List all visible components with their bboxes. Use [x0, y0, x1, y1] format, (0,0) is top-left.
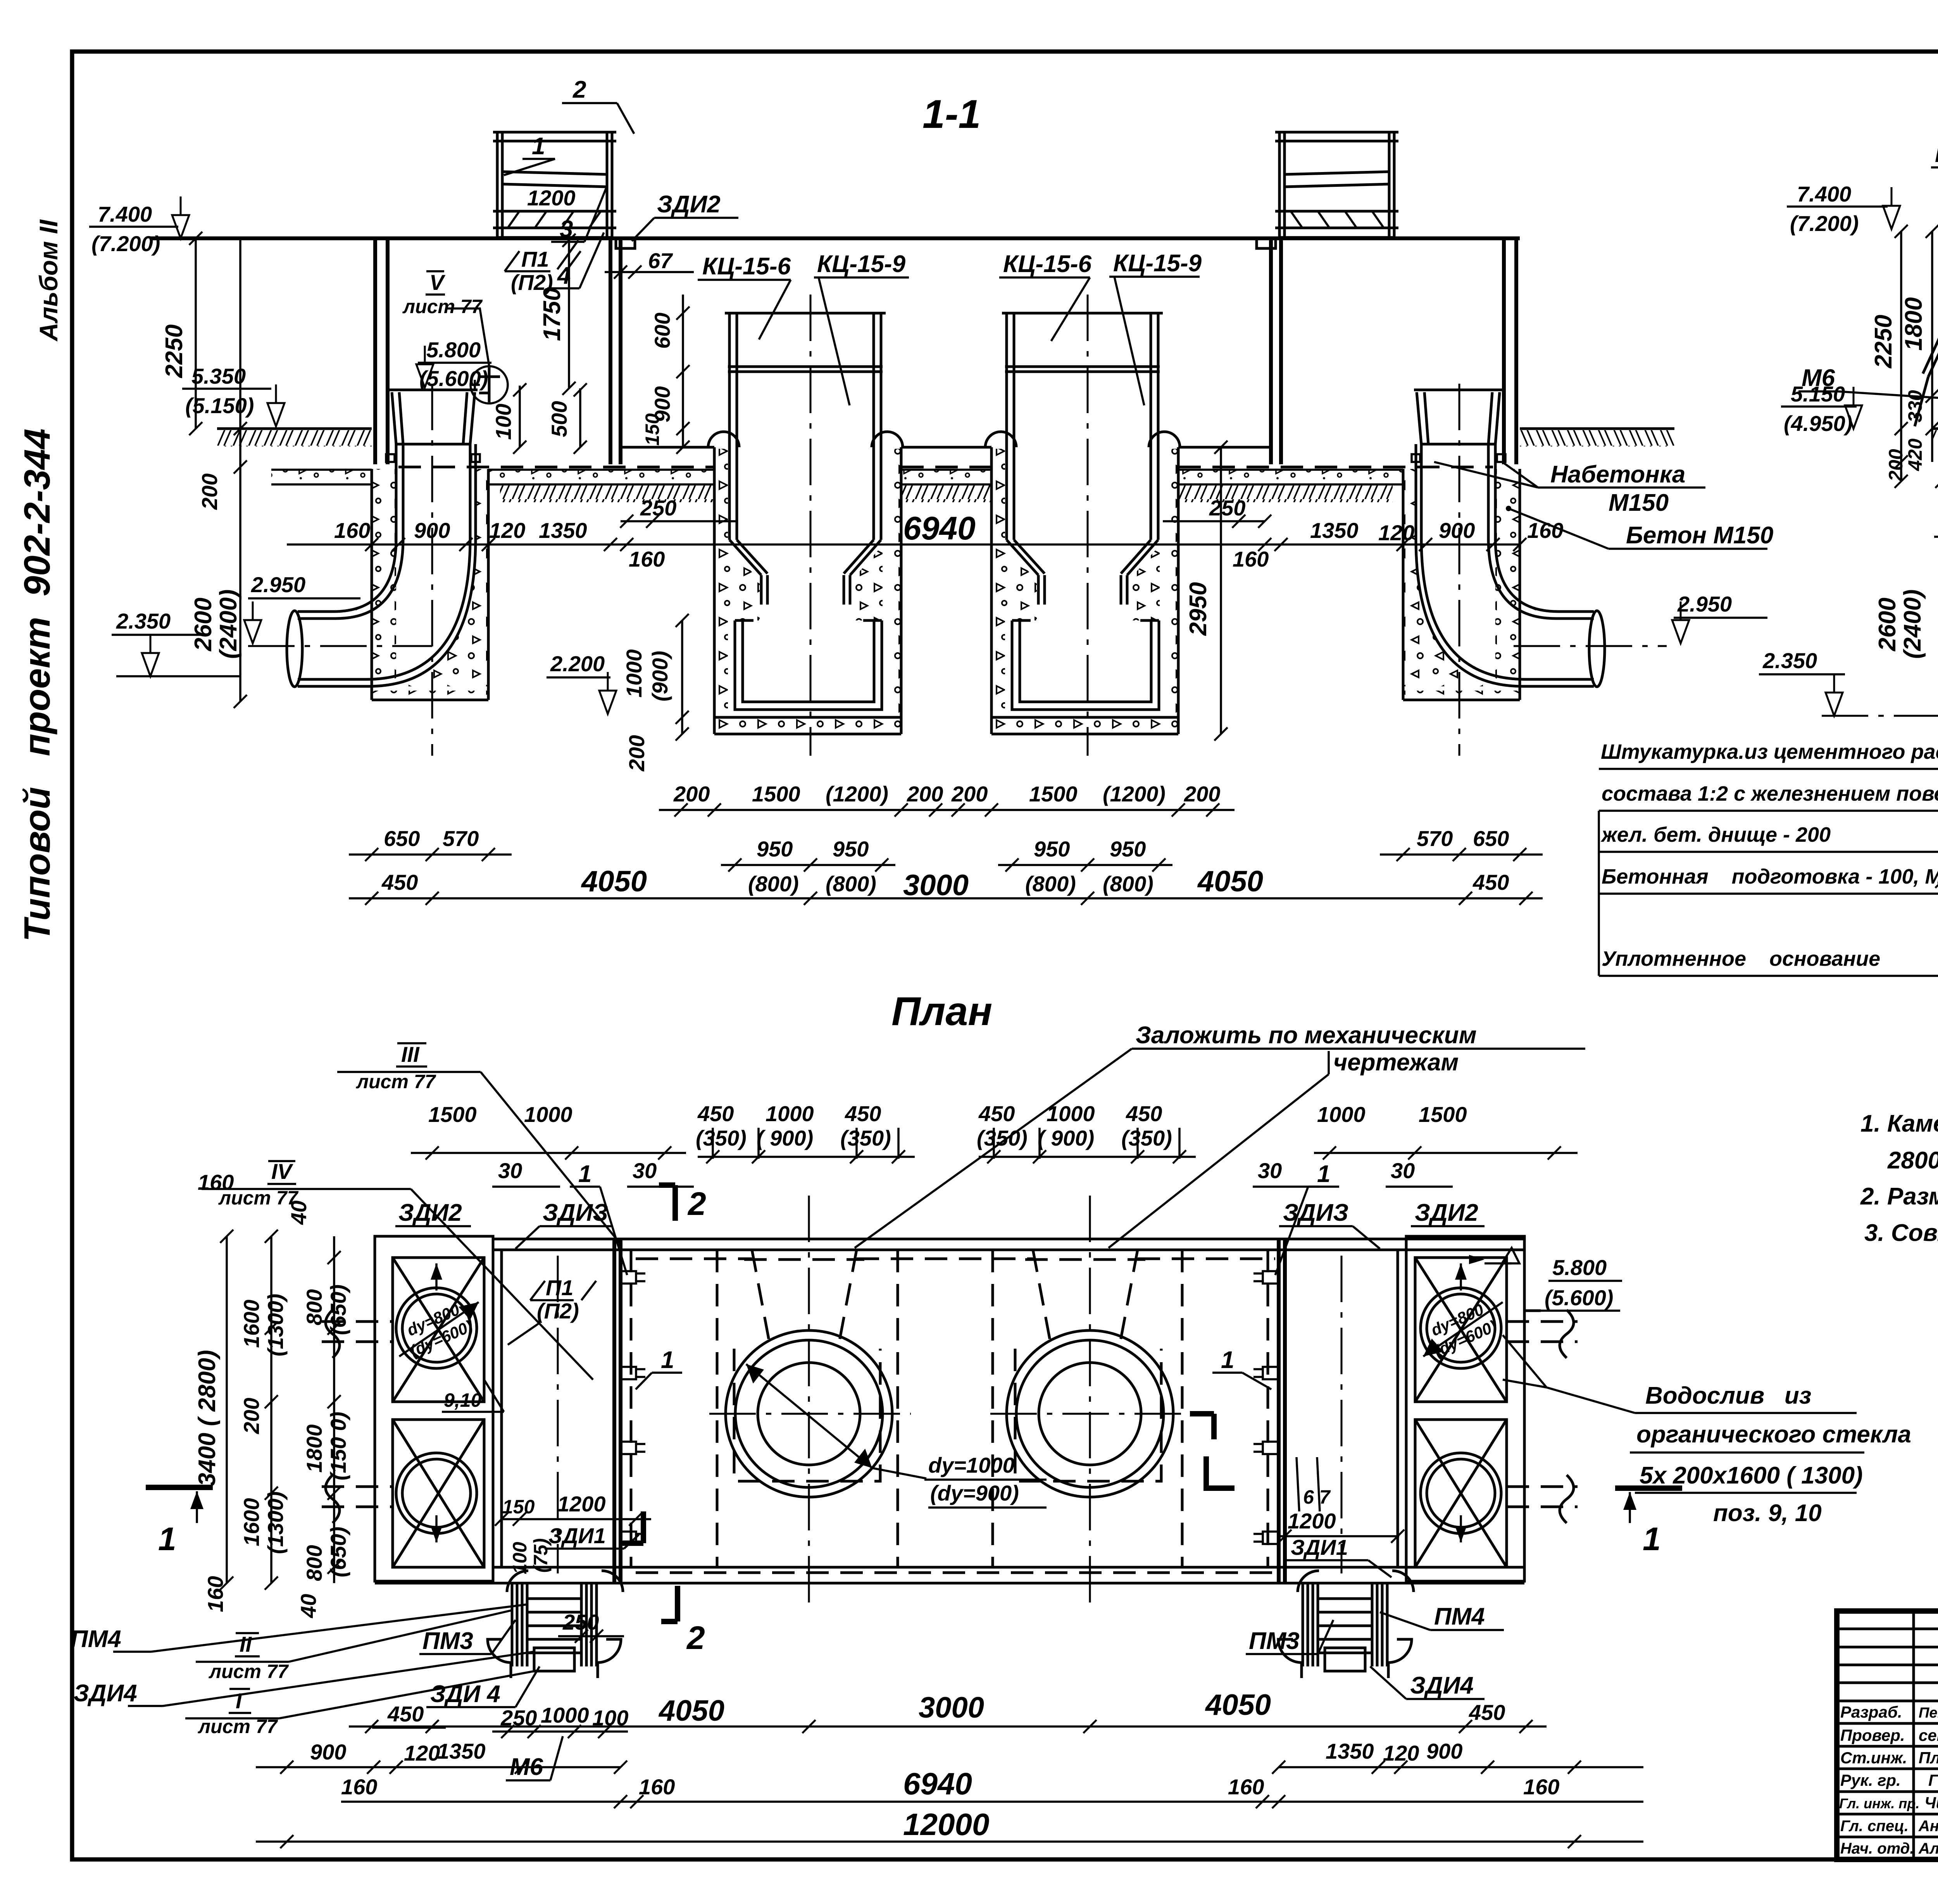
- inlet chute: [389, 389, 478, 391]
- svg-text:250: 250: [562, 1610, 599, 1634]
- svg-text:( 900): ( 900): [757, 1126, 813, 1150]
- svg-text:900: 900: [1439, 518, 1475, 543]
- bedding speckle band: [271, 470, 372, 484]
- 1-1 level mark 2.950 left: [244, 572, 360, 643]
- svg-text:ПМ34: ПМ34: [1935, 141, 1938, 167]
- ground line left of chute: [217, 427, 372, 430]
- svg-text:(5.600): (5.600): [1545, 1285, 1613, 1310]
- svg-text:III: III: [401, 1042, 420, 1067]
- svg-text:План: План: [891, 989, 992, 1034]
- svg-text:4050: 4050: [1205, 1689, 1271, 1721]
- svg-text:Уплотненное основание: Уплотненное основание: [1602, 947, 1880, 970]
- svg-text:30: 30: [633, 1158, 657, 1183]
- ZDI2 notch: [616, 240, 635, 248]
- svg-text:1750: 1750: [539, 288, 566, 341]
- concrete bumps at floor: [708, 432, 739, 447]
- svg-text:(800): (800): [1103, 872, 1153, 896]
- svg-text:ЗДИ4: ЗДИ4: [74, 1680, 137, 1707]
- svg-text:М150: М150: [1609, 489, 1669, 516]
- svg-text:12000: 12000: [903, 1807, 989, 1842]
- svg-text:2600: 2600: [1874, 598, 1901, 651]
- svg-text:ЗДИ1: ЗДИ1: [548, 1523, 606, 1548]
- svg-text:V: V: [429, 270, 446, 295]
- svg-text:1600: 1600: [239, 1299, 264, 1348]
- svg-text:450: 450: [697, 1101, 734, 1126]
- svg-text:160: 160: [1233, 547, 1269, 571]
- svg-text:Бетон М150: Бетон М150: [1626, 522, 1773, 549]
- svg-text:ПМ4: ПМ4: [71, 1626, 121, 1652]
- svg-text:2: 2: [687, 1185, 706, 1222]
- svg-text:650: 650: [1473, 826, 1509, 851]
- svg-text:2250: 2250: [1870, 315, 1897, 369]
- svg-text:250: 250: [1209, 496, 1245, 520]
- svg-text:160: 160: [1228, 1775, 1264, 1799]
- svg-text:150: 150: [641, 413, 663, 446]
- svg-text:160: 160: [639, 1775, 675, 1799]
- svg-text:1000: 1000: [622, 649, 646, 698]
- svg-text:Провер.: Провер.: [1840, 1726, 1905, 1744]
- svg-text:(75): (75): [530, 1538, 552, 1573]
- section marks 1: [146, 1485, 213, 1490]
- svg-text:1: 1: [1643, 1521, 1661, 1557]
- svg-text:160: 160: [203, 1576, 228, 1612]
- svg-text:800: 800: [302, 1545, 326, 1581]
- svg-text:(1200): (1200): [826, 782, 888, 806]
- svg-text:160: 160: [198, 1170, 234, 1194]
- svg-text:40: 40: [286, 1201, 311, 1225]
- svg-text:67: 67: [648, 248, 673, 273]
- drop shaft walls: [395, 444, 398, 539]
- bottom dims tank B: [936, 809, 1235, 811]
- svg-text:6 7: 6 7: [1303, 1486, 1331, 1508]
- svg-text:3400 ( 2800): 3400 ( 2800): [194, 1350, 221, 1486]
- svg-text:1200: 1200: [1288, 1509, 1336, 1533]
- shaft center lines 1-1: [431, 384, 433, 756]
- svg-text:ЗДИЗ: ЗДИЗ: [543, 1199, 608, 1226]
- svg-text:450: 450: [1469, 1700, 1505, 1725]
- floor slab lines: [621, 446, 714, 449]
- svg-text:450: 450: [845, 1101, 881, 1126]
- svg-text:(800): (800): [748, 872, 799, 896]
- svg-text:ЗДИЗ: ЗДИЗ: [1283, 1199, 1348, 1226]
- svg-text:1: 1: [578, 1161, 591, 1187]
- svg-text:Гл. спец.: Гл. спец.: [1840, 1818, 1909, 1835]
- svg-text:2250: 2250: [161, 324, 188, 378]
- dim 2950 right of tank B: [1220, 447, 1222, 734]
- svg-text:1: 1: [1317, 1161, 1330, 1187]
- svg-text:лист 77: лист 77: [356, 1071, 436, 1092]
- pit outline: [371, 469, 373, 700]
- svg-text:5.800: 5.800: [426, 338, 481, 362]
- svg-text:200: 200: [1885, 449, 1907, 482]
- funnel: [729, 540, 761, 575]
- svg-text:420: 420: [1904, 438, 1926, 471]
- corridor inner dashed lines: [636, 1258, 752, 1260]
- svg-text:2. Размеры и обозначения В с: 2. Размеры и обозначения В скобках для к…: [1860, 1183, 1938, 1210]
- dims around chute: 100 500 1750: [519, 386, 521, 447]
- svg-text:органического стекла: органического стекла: [1636, 1421, 1911, 1448]
- dims 650/570 left and right: [349, 853, 512, 856]
- svg-text:4050: 4050: [1197, 865, 1263, 898]
- svg-text:(2400): (2400): [1899, 589, 1926, 659]
- svg-text:Рук. гр.: Рук. гр.: [1840, 1771, 1901, 1789]
- svg-text:(П2): (П2): [537, 1299, 579, 1323]
- svg-text:950: 950: [1034, 837, 1070, 861]
- svg-text:II: II: [240, 1632, 252, 1656]
- svg-text:чертежам: чертежам: [1333, 1049, 1459, 1076]
- anchor pads on corridor walls: [621, 1271, 645, 1284]
- svg-text:1350: 1350: [437, 1739, 486, 1763]
- svg-text:2.350: 2.350: [1762, 648, 1817, 673]
- pit concrete fill: [372, 469, 396, 686]
- svg-text:(7.200): (7.200): [91, 231, 160, 256]
- svg-text:500: 500: [547, 401, 571, 437]
- svg-text:(1300): (1300): [263, 1294, 288, 1356]
- svg-text:1: 1: [158, 1521, 176, 1557]
- 1-1 level mark 5.800: [416, 338, 491, 391]
- svg-text:1500: 1500: [752, 782, 800, 806]
- svg-text:450: 450: [381, 870, 418, 894]
- svg-text:100: 100: [491, 404, 516, 440]
- svg-text:(150 0): (150 0): [326, 1412, 350, 1480]
- svg-text:1500: 1500: [1419, 1102, 1467, 1127]
- svg-text:2: 2: [686, 1620, 705, 1656]
- svg-text:30: 30: [498, 1158, 522, 1183]
- svg-text:поз. 9, 10: поз. 9, 10: [1713, 1500, 1822, 1527]
- svg-text:1350: 1350: [539, 518, 587, 543]
- svg-text:(1200): (1200): [1103, 782, 1166, 806]
- svg-text:7.400: 7.400: [98, 202, 152, 226]
- big distribution circles: [709, 1330, 911, 1497]
- svg-text:450: 450: [1472, 870, 1509, 894]
- svg-text:6940: 6940: [903, 1766, 972, 1801]
- svg-text:(2400): (2400): [215, 589, 242, 659]
- svg-text:ЗДИ2: ЗДИ2: [657, 191, 721, 218]
- svg-text:КЦ-15-9: КЦ-15-9: [817, 251, 906, 277]
- svg-text:ПМ3: ПМ3: [422, 1628, 473, 1654]
- svg-text:5х 200х1600 ( 1300): 5х 200х1600 ( 1300): [1640, 1462, 1863, 1489]
- svg-text:120: 120: [1378, 520, 1414, 545]
- svg-text:200: 200: [1184, 782, 1220, 806]
- svg-text:3. Совместно с данным см. л: 3. Совместно с данным см. л. КЖ-77.: [1864, 1220, 1938, 1246]
- svg-text:ЗДИ1: ЗДИ1: [1291, 1535, 1348, 1559]
- svg-text:800: 800: [302, 1289, 326, 1325]
- svg-text:7.400: 7.400: [1797, 182, 1851, 206]
- svg-text:4050: 4050: [658, 1694, 724, 1727]
- svg-text:200: 200: [907, 782, 943, 806]
- nabetonka anchor pads: [386, 454, 395, 462]
- svg-text:570: 570: [443, 826, 479, 851]
- svg-text:ПМ4: ПМ4: [1434, 1603, 1485, 1630]
- pit outline: [713, 447, 716, 734]
- dashed pits around circles: [734, 1349, 880, 1481]
- svg-text:1000: 1000: [766, 1101, 814, 1126]
- svg-text:200: 200: [197, 474, 222, 510]
- earth hatch under bedding: [500, 485, 714, 502]
- svg-text:Нач. отд.: Нач. отд.: [1840, 1840, 1914, 1857]
- svg-text:160: 160: [629, 547, 665, 571]
- svg-text:М6: М6: [1802, 365, 1835, 391]
- V sheet 77 label: [402, 270, 489, 366]
- vertical dims left: [195, 238, 197, 429]
- svg-text:(650): (650): [326, 1527, 350, 1577]
- svg-text:950: 950: [833, 837, 869, 861]
- svg-text:100: 100: [509, 1542, 531, 1574]
- svg-text:200: 200: [951, 782, 988, 806]
- svg-text:160: 160: [1523, 1775, 1559, 1799]
- svg-text:Типовой проект 902-2-344: Типовой проект 902-2-344: [17, 429, 58, 942]
- svg-text:ЗДИ2: ЗДИ2: [398, 1199, 462, 1226]
- tank A vertical dims: [682, 295, 684, 447]
- svg-text:(1300): (1300): [263, 1491, 288, 1554]
- svg-text:1200: 1200: [557, 1492, 606, 1516]
- thick corner marks: [1190, 1414, 1214, 1439]
- svg-text:Платунина: Платунина: [1919, 1749, 1938, 1767]
- svg-text:1600: 1600: [239, 1498, 264, 1546]
- svg-text:160: 160: [1527, 518, 1563, 543]
- svg-text:120: 120: [489, 518, 525, 543]
- concrete jacket fill: [714, 449, 728, 717]
- svg-text:2: 2: [572, 76, 586, 103]
- svg-text:2950: 2950: [1185, 582, 1212, 636]
- left chamber block: [375, 1236, 493, 1581]
- svg-text:2.350: 2.350: [116, 609, 171, 633]
- plaster spec text block: [1599, 740, 1938, 976]
- svg-text:КЦ-15-6: КЦ-15-6: [702, 253, 791, 280]
- level line 2.350: [1822, 715, 1938, 717]
- detail mark circle: [471, 366, 508, 403]
- svg-text:160: 160: [334, 518, 370, 543]
- corridor walls: [493, 1238, 1524, 1241]
- corridor dashed partitions: [630, 1250, 633, 1567]
- svg-text:280000 м³/сут., камера N8 для: 280000 м³/сут., камера N8 для аэратенка …: [1887, 1147, 1938, 1174]
- svg-text:(7.200): (7.200): [1790, 211, 1859, 236]
- stairs left (plan): [488, 1571, 623, 1678]
- svg-text:9,10: 9,10: [444, 1389, 482, 1411]
- svg-text:(800): (800): [826, 872, 876, 896]
- bottom chain 450/4050/3000/4050/450: [349, 897, 1543, 899]
- left outer wall: [373, 238, 377, 464]
- svg-text:120: 120: [1383, 1741, 1419, 1765]
- svg-text:(350): (350): [840, 1126, 891, 1150]
- svg-text:1. Камера N7 для аэротенка: 1. Камера N7 для аэротенка производитель…: [1860, 1110, 1938, 1137]
- svg-text:3000: 3000: [919, 1691, 984, 1724]
- svg-text:ПМ3: ПМ3: [1249, 1628, 1300, 1654]
- svg-text:5.800: 5.800: [1552, 1255, 1607, 1280]
- svg-text:2.950: 2.950: [251, 572, 305, 597]
- svg-text:200: 200: [624, 735, 649, 772]
- section marks 2: [659, 1185, 675, 1221]
- svg-text:(4.950): (4.950): [1784, 411, 1852, 436]
- svg-text:(650): (650): [326, 1284, 350, 1335]
- svg-text:1500: 1500: [1029, 782, 1078, 806]
- svg-text:ЗДИ4: ЗДИ4: [1410, 1672, 1474, 1699]
- svg-text:650: 650: [384, 826, 420, 851]
- svg-text:КЦ-15-9: КЦ-15-9: [1113, 250, 1202, 277]
- incoming pipes dashed left: [322, 1320, 393, 1323]
- svg-text:1000: 1000: [541, 1703, 589, 1727]
- svg-text:600: 600: [650, 313, 674, 349]
- svg-text:(900): (900): [648, 651, 672, 701]
- svg-text:3000: 3000: [903, 869, 969, 902]
- svg-text:900: 900: [310, 1740, 346, 1764]
- svg-text:семенова: семенова: [1919, 1726, 1938, 1744]
- ground lines 2-2: [1932, 427, 1938, 430]
- svg-text:Ст.инж.: Ст.инж.: [1840, 1749, 1907, 1767]
- svg-text:950: 950: [757, 837, 793, 861]
- svg-text:Чирков: Чирков: [1924, 1794, 1938, 1812]
- svg-text:Альбом II: Альбом II: [34, 219, 63, 342]
- svg-text:1350: 1350: [1326, 1739, 1374, 1763]
- svg-text:жел. бет. днище - 200: жел. бет. днище - 200: [1600, 823, 1831, 846]
- neck walls: [728, 313, 731, 540]
- svg-text:200: 200: [239, 1398, 264, 1434]
- svg-text:1500: 1500: [428, 1102, 477, 1127]
- svg-text:Водослив из: Водослив из: [1645, 1382, 1811, 1409]
- svg-text:(350): (350): [696, 1126, 747, 1150]
- main middle dim chain y=1405: [287, 543, 1520, 546]
- svg-text:dy=1000: dy=1000: [928, 1453, 1015, 1477]
- main title table: [1837, 1611, 1938, 1859]
- svg-text:состава 1:2 с железнением пове: состава 1:2 с железнением поверхности-25: [1602, 782, 1938, 805]
- svg-text:30: 30: [1258, 1158, 1282, 1183]
- svg-text:570: 570: [1417, 826, 1453, 851]
- svg-text:Гл. инж. пр.: Гл. инж. пр.: [1839, 1795, 1919, 1811]
- svg-text:1-1: 1-1: [922, 92, 981, 137]
- 1-1 level mark 5.350: [182, 364, 284, 426]
- svg-text:4050: 4050: [581, 865, 647, 898]
- svg-text:1: 1: [532, 133, 545, 160]
- svg-text:П1: П1: [521, 247, 549, 271]
- svg-text:IV: IV: [271, 1159, 294, 1184]
- svg-text:(800): (800): [1025, 872, 1076, 896]
- svg-text:120: 120: [404, 1741, 440, 1765]
- bottom chains: [349, 1725, 1547, 1728]
- svg-text:Штукатурка.из цементного раств: Штукатурка.из цементного раствора: [1601, 740, 1938, 763]
- svg-text:450: 450: [387, 1702, 424, 1726]
- svg-text:1: 1: [1221, 1347, 1234, 1373]
- 2-2 left vertical dims: [1900, 231, 1902, 481]
- svg-text:1: 1: [661, 1347, 674, 1373]
- svg-text:160: 160: [341, 1775, 377, 1799]
- svg-text:лист 77: лист 77: [402, 296, 483, 317]
- trough: [735, 620, 882, 710]
- svg-text:1800: 1800: [1900, 297, 1927, 351]
- svg-text:Петропавловская: Петропавловская: [1919, 1705, 1938, 1721]
- svg-text:I: I: [236, 1689, 242, 1713]
- dashed funnels to top wall: [752, 1250, 771, 1349]
- svg-text:900: 900: [1426, 1739, 1462, 1763]
- svg-text:950: 950: [1110, 837, 1146, 861]
- svg-text:1000: 1000: [524, 1102, 572, 1127]
- 2-2 levels: [1787, 182, 1900, 236]
- svg-text:200: 200: [673, 782, 710, 806]
- svg-text:2.200: 2.200: [550, 651, 605, 676]
- distribution well KC-15 (tank): [708, 295, 903, 756]
- room wall to central chamber: [609, 238, 612, 464]
- svg-text:Набетонка: Набетонка: [1550, 461, 1685, 488]
- svg-text:Андрианов: Андрианов: [1918, 1818, 1938, 1835]
- svg-text:ЗДИ2: ЗДИ2: [1415, 1199, 1478, 1226]
- svg-text:1800: 1800: [302, 1424, 326, 1473]
- svg-text:40: 40: [296, 1594, 321, 1618]
- curved outlet pipe: [298, 539, 396, 612]
- svg-text:Разраб.: Разраб.: [1840, 1703, 1902, 1721]
- svg-text:2600: 2600: [190, 598, 217, 651]
- 1-1 level mark 7.400: [89, 196, 189, 256]
- svg-text:30: 30: [1391, 1158, 1415, 1183]
- dy=1000 arrow and label: [746, 1364, 872, 1468]
- svg-text:6940: 6940: [903, 510, 976, 546]
- svg-text:Альтшуллер: Альтшуллер: [1918, 1840, 1938, 1857]
- svg-text:Заложить по механическим: Заложить по механическим: [1136, 1022, 1477, 1049]
- svg-text:лист 77: лист 77: [209, 1661, 289, 1682]
- handrail platform P1: [496, 132, 499, 237]
- right chamber block: [1406, 1236, 1524, 1581]
- svg-text:1000: 1000: [1317, 1102, 1366, 1127]
- bottom dims tank A: [659, 809, 957, 811]
- plan left vertical dims: [226, 1236, 228, 1583]
- 1-1 level mark 2.350: [112, 609, 240, 676]
- svg-text:КЦ-15-6: КЦ-15-6: [1003, 251, 1092, 277]
- svg-text:Гарбуз: Гарбуз: [1928, 1771, 1938, 1789]
- 1-1 level mark 2.200: [547, 651, 616, 714]
- svg-text:(dy=900): (dy=900): [930, 1481, 1019, 1505]
- svg-text:5.350: 5.350: [191, 364, 246, 388]
- svg-text:Бетонная подготовка - 100,: Бетонная подготовка - 100, М50: [1602, 865, 1938, 888]
- top slab line: [150, 236, 1520, 240]
- center line: [810, 295, 812, 756]
- dim 1000(900)/200 left of tank A pit: [681, 620, 683, 734]
- svg-text:1200: 1200: [527, 186, 576, 210]
- svg-text:П1: П1: [546, 1275, 573, 1300]
- svg-text:1350: 1350: [1310, 518, 1359, 543]
- svg-text:2.950: 2.950: [1677, 592, 1732, 616]
